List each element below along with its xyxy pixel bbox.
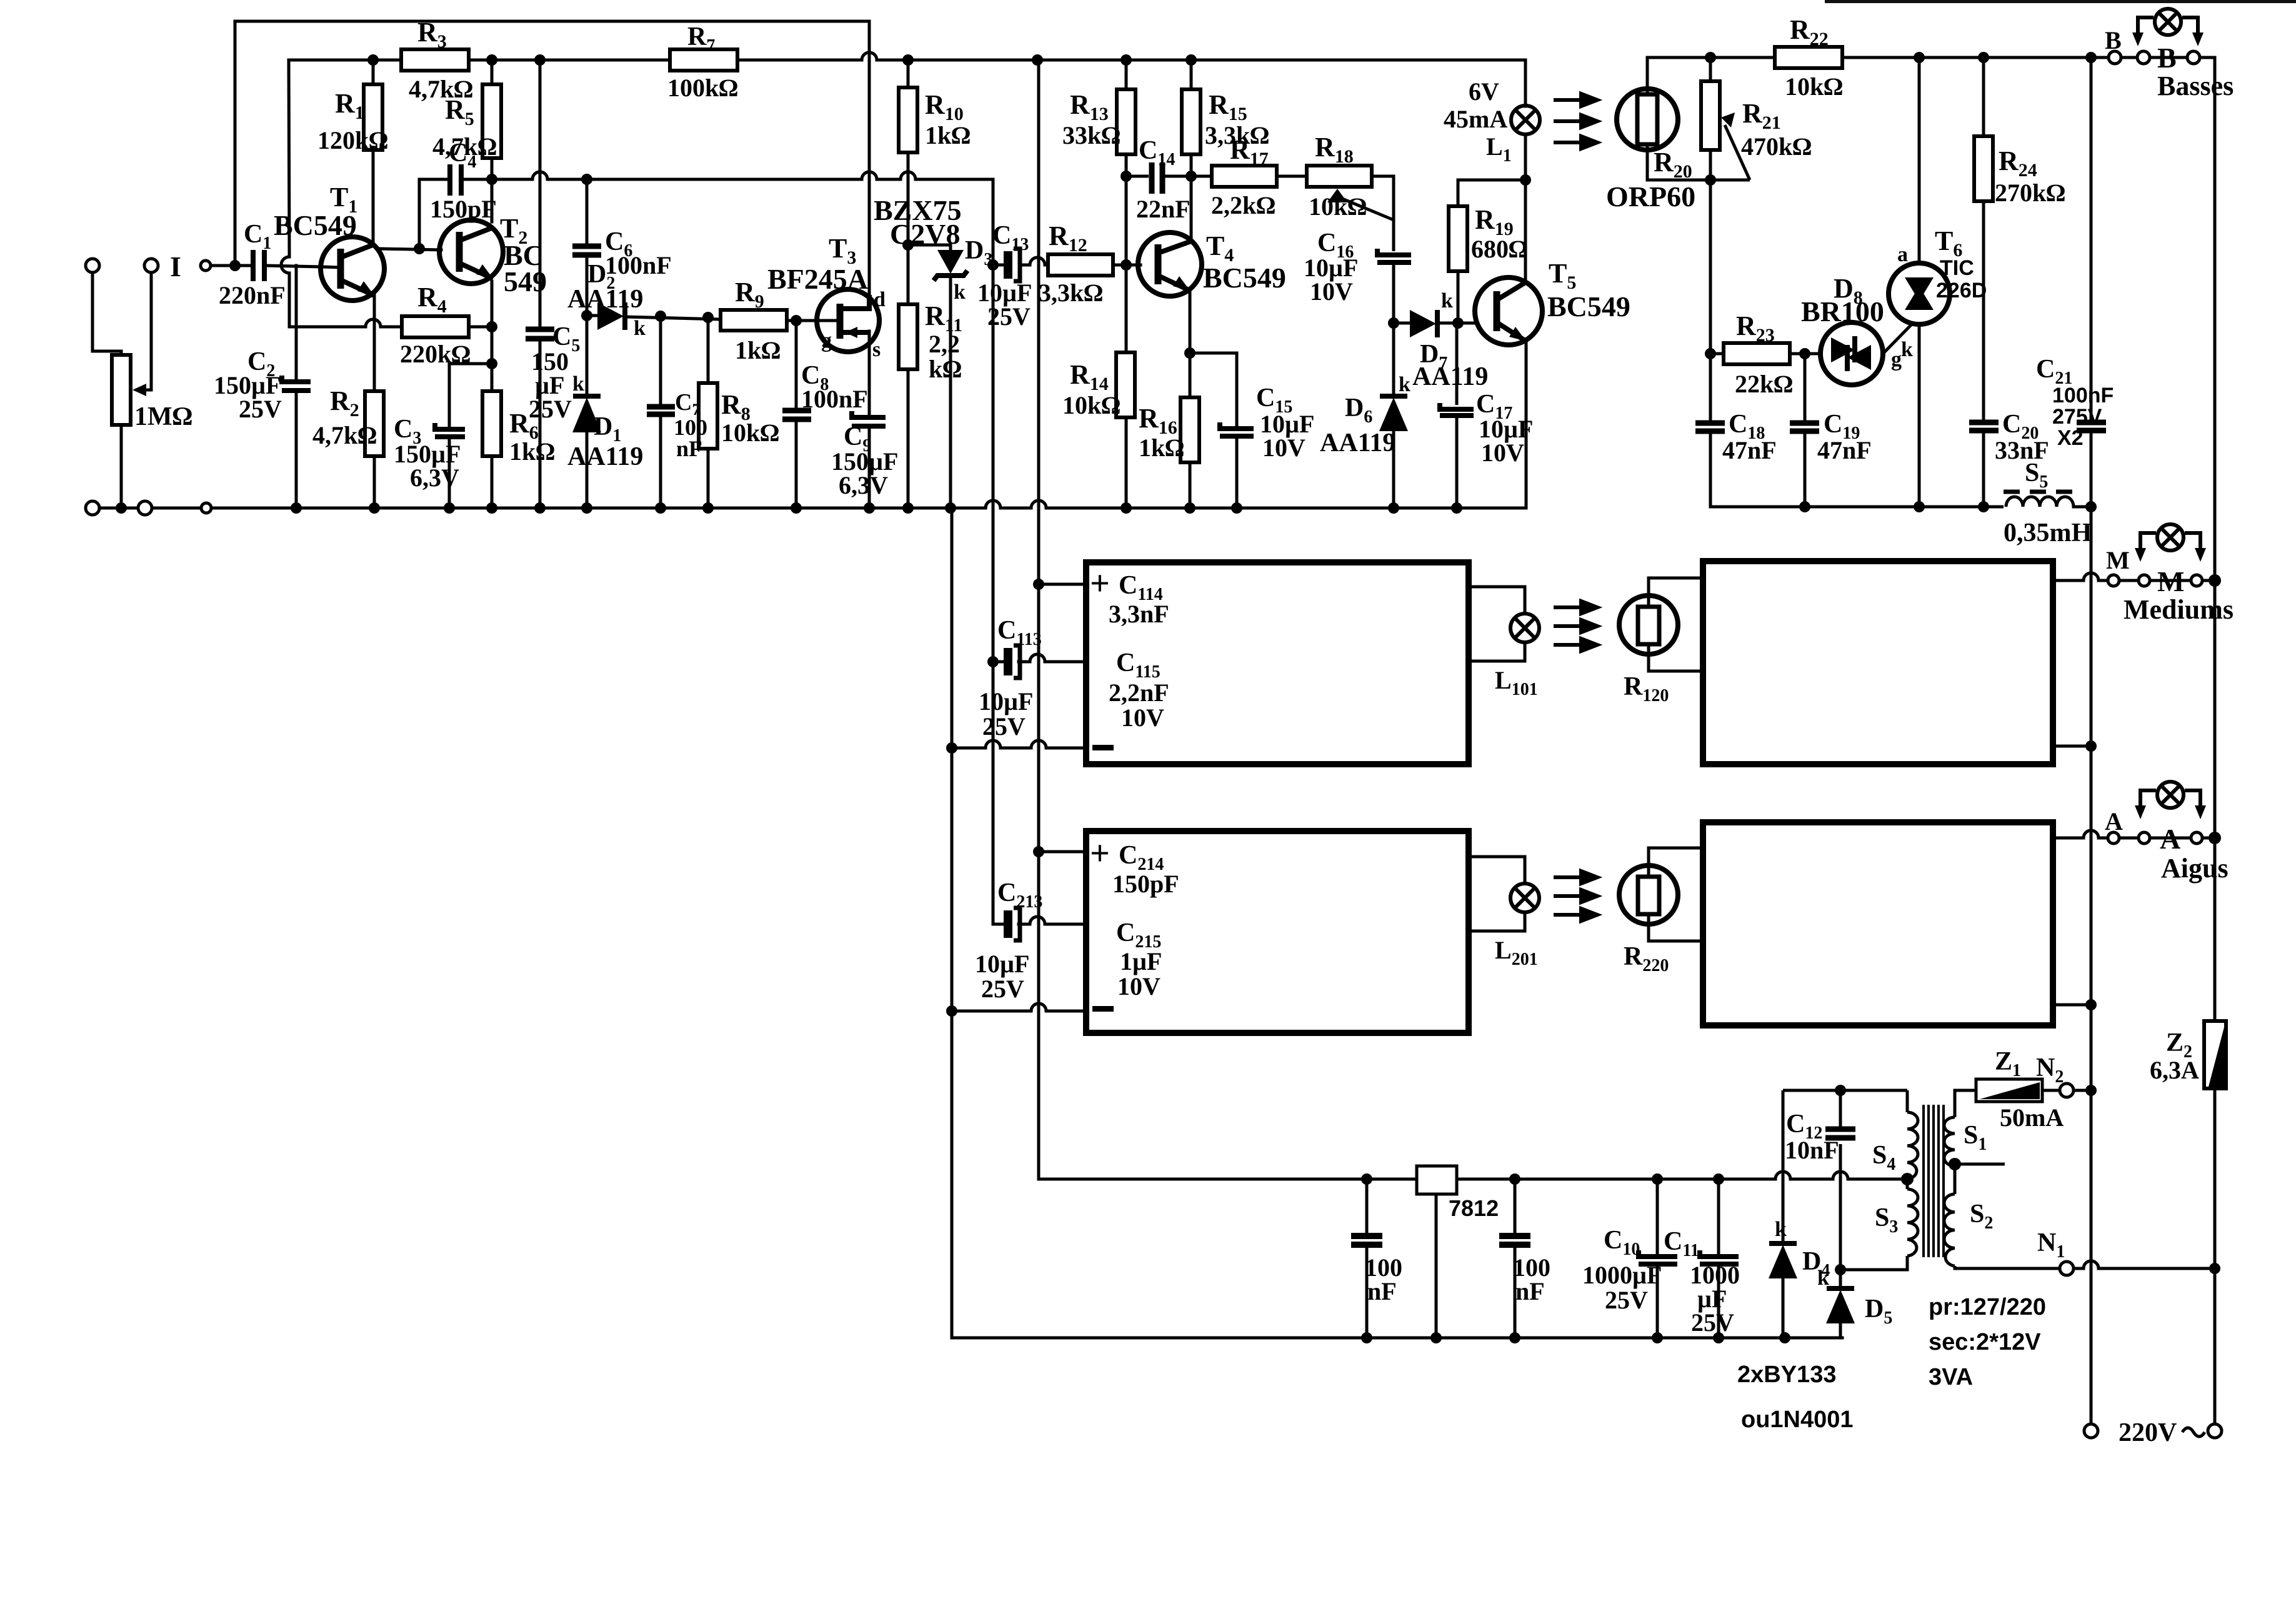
wire: C16 bottom to D6/D7 node	[1392, 264, 1395, 323]
terminal N2	[2060, 1083, 2074, 1097]
220V mains terminals	[2084, 1424, 2098, 1438]
svg-text:nF: nF	[1515, 1277, 1545, 1305]
svg-text:25V: 25V	[239, 395, 282, 423]
capacitor C213 10uF 25V (electrolytic, horizontal)	[1008, 908, 1020, 940]
capacitor C16 10uF 10V (electrolytic)	[1377, 249, 1411, 262]
svg-text:nF: nF	[676, 436, 702, 461]
svg-text:+: +	[1090, 834, 1110, 873]
wire: right block A lower stub	[2055, 1004, 2091, 1007]
wire: L1 lamp to T5 collector	[1524, 134, 1527, 282]
svg-text:1kΩ: 1kΩ	[509, 437, 555, 466]
wire: R24/C20 column	[1982, 57, 1985, 136]
wire: +rail y=96 from R7 to L1 corner, hop over x=1391	[736, 52, 1525, 106]
resistor R3 4,7k (in + rail)	[401, 49, 469, 71]
wire: C6/D1 column	[586, 179, 589, 245]
wire: right block M lower stub	[2055, 745, 2091, 748]
wire: R18 to C16 column corner	[1372, 176, 1394, 251]
svg-text:k: k	[572, 372, 584, 396]
wire: C3 branch from emitter column	[449, 364, 492, 427]
wire: PSU top link D4 column to transformer	[1783, 1090, 2215, 1270]
capacitor C9 150uF 6,3V (electrolytic)	[852, 411, 886, 426]
fuse Z1 50mA	[1976, 1079, 2042, 1102]
wire: T1 collector column	[372, 60, 375, 84]
resistor R10 1k	[899, 87, 917, 152]
wire: C214 + row into block 2	[1039, 850, 1084, 854]
wire: R21 column	[1709, 57, 1712, 81]
svg-text:270kΩ: 270kΩ	[1995, 179, 2065, 207]
svg-text:6V: 6V	[1469, 77, 1499, 106]
svg-text:150pF: 150pF	[1112, 870, 1179, 898]
svg-text:AA119: AA119	[567, 285, 643, 314]
capacitor C10 1000uF 25V (electrolytic)	[1656, 1179, 1659, 1338]
svg-text:10kΩ: 10kΩ	[1785, 72, 1843, 101]
svg-text:A: A	[2160, 823, 2180, 855]
svg-text:100nF: 100nF	[801, 385, 868, 413]
wire: R15 column from +rail to C14 node to T4 collector	[1190, 60, 1193, 89]
wire: A row from block to terminals with hop over x=3346	[2055, 830, 2215, 838]
svg-text:4,7kΩ: 4,7kΩ	[312, 421, 377, 449]
wire: C19 column	[1804, 354, 1807, 421]
wire: C13 row y=424 zener node to R12 to T4 base, hop over x=1662	[993, 257, 1141, 265]
wire: T6 cathode column	[1918, 324, 1921, 507]
capacitor C13 10uF 25V (electrolytic, horizontal)	[1008, 249, 1020, 281]
wire: R23 row y=566	[1710, 352, 1724, 356]
capacitor C8 100nF	[782, 411, 811, 419]
svg-text:BC549: BC549	[1547, 291, 1630, 322]
wire: C17 column	[1455, 323, 1459, 405]
lamp L1 6V 45mA	[1511, 106, 1540, 134]
svg-text:33nF: 33nF	[1995, 436, 2049, 464]
svg-text:6,3A: 6,3A	[2150, 1056, 2199, 1084]
wire: signal column x=1589 down to C113 and C213 rows	[992, 265, 995, 924]
wire: T2 emitter column through R6	[491, 281, 494, 391]
svg-text:25V: 25V	[987, 302, 1031, 331]
svg-text:25V: 25V	[529, 395, 572, 423]
resistor R9 1k	[721, 310, 787, 331]
capacitor C4 150pF	[450, 164, 461, 196]
resistor R6 1k	[482, 391, 501, 456]
wire: R4 right end to T2 emitter column	[469, 326, 492, 329]
junction dots: left preamp section	[116, 54, 1044, 1017]
filter block 2 (Aigus high-pass)	[1086, 831, 1469, 1033]
terminal N1	[2060, 1262, 2074, 1275]
svg-text:0,35mH: 0,35mH	[2004, 519, 2092, 547]
potentiometer R21 470k	[1701, 81, 1720, 150]
wire: diac to triac gate diagonal	[1883, 322, 1914, 354]
ground rail hops over x=1589 and x=1662	[986, 501, 1526, 508]
svg-text:k: k	[1901, 338, 1913, 361]
svg-text:k: k	[954, 281, 966, 304]
wire: block1 minus row y=1197 from ground spine, hops over x=1589 and x=1662	[952, 740, 1084, 748]
svg-text:d: d	[874, 288, 886, 311]
svg-text:Aigus: Aigus	[2161, 853, 2229, 884]
power block M (right)	[1703, 561, 2053, 764]
lamp symbol above B terminals	[2138, 9, 2198, 37]
svg-text:1µF: 1µF	[1120, 947, 1162, 975]
M terminal circles	[2108, 575, 2202, 586]
capacitor C19 47nF	[1790, 423, 1819, 431]
svg-text:220V: 220V	[2119, 1418, 2177, 1447]
svg-text:10V: 10V	[1310, 277, 1353, 306]
svg-text:47nF: 47nF	[1722, 436, 1777, 464]
diode D4 BY133 (cathode up)	[1782, 1090, 1785, 1338]
wire: +rail y=96 left segment with corner down at x=462	[289, 59, 401, 62]
svg-text:3,3kΩ: 3,3kΩ	[1039, 279, 1103, 307]
svg-text:nF: nF	[1367, 1277, 1397, 1305]
capacitor C2 150uF 25V (electrolytic)	[282, 376, 311, 391]
diode D2 AA119 (pointing right)	[597, 302, 624, 330]
wire: T3 source to C9 to ground	[868, 331, 871, 415]
LDR R220	[1619, 865, 1678, 924]
resistor R7 100k (in + rail)	[670, 49, 737, 71]
svg-text:BF245A: BF245A	[767, 263, 868, 295]
wire: R13 column from +rail through C14 node to T4 base node and R14	[1126, 60, 1525, 508]
capacitor C12 10nF	[1839, 1090, 1842, 1127]
diac D8 BR100	[1820, 322, 1883, 385]
svg-text:10kΩ: 10kΩ	[1309, 192, 1367, 221]
svg-text:22nF: 22nF	[1136, 195, 1190, 223]
svg-text:+: +	[1090, 564, 1110, 603]
wire: M row from block to terminals with hop over x=3346	[2055, 573, 2215, 580]
svg-text:k: k	[1399, 373, 1410, 396]
resistor R13 33k	[1117, 89, 1136, 154]
svg-text:10V: 10V	[1121, 704, 1164, 732]
svg-text:B: B	[2157, 42, 2177, 74]
wire: C7 column	[659, 316, 662, 405]
diode D5 BY133 (cathode up)	[1839, 1144, 1842, 1338]
svg-text:BR100: BR100	[1801, 296, 1884, 327]
svg-text:10V: 10V	[1117, 972, 1160, 1000]
svg-text:2,2kΩ: 2,2kΩ	[1211, 191, 1275, 219]
svg-text:AA119: AA119	[1320, 429, 1395, 457]
scan artifact line at top edge	[1825, 0, 2296, 3]
input jack terminal circles	[86, 259, 211, 515]
resistor R11 2,2k	[899, 304, 917, 369]
wire: R8 column	[707, 317, 710, 383]
wire: C14/R17 row y=282	[1126, 175, 1149, 178]
lamp symbol above A terminals	[2140, 782, 2200, 810]
potentiometer R18 10k	[1307, 166, 1372, 187]
wire: column x=2737 down to R23 and C18, corner to bottom rail	[1709, 180, 1712, 354]
capacitor C18 47nF	[1695, 423, 1725, 431]
svg-text:X2: X2	[2057, 426, 2084, 450]
transistor T2 BC549	[439, 220, 503, 284]
A terminal circles	[2108, 832, 2202, 844]
svg-text:2,2nF: 2,2nF	[1109, 679, 1169, 707]
wire: C5 column from +rail to ground	[539, 60, 542, 327]
B terminal circles	[2109, 51, 2200, 64]
junction dots PSU	[1361, 1085, 1961, 1343]
capacitor C17 10uF 10V (electrolytic)	[1440, 403, 1474, 416]
potentiometer R21 wiper diagonal	[1725, 125, 1750, 180]
lamp L201 with loop from block2	[1470, 857, 1525, 931]
N1 wire to right column with hop over x=3346	[2073, 1261, 2215, 1268]
svg-text:25V: 25V	[1605, 1286, 1648, 1314]
potentiometer wiper arrow	[142, 272, 151, 390]
LDR R120	[1619, 595, 1678, 654]
wire: T1 emitter down through R2 to ground	[373, 296, 376, 391]
secondary centre tap stub	[1955, 1163, 2005, 1166]
resistor R15 3,3k	[1182, 89, 1200, 154]
svg-text:k: k	[1775, 1218, 1787, 1241]
svg-text:275V: 275V	[2052, 405, 2102, 429]
svg-text:k: k	[634, 317, 646, 340]
svg-text:100nF: 100nF	[2052, 384, 2114, 407]
svg-text:3,3nF: 3,3nF	[1109, 600, 1169, 628]
svg-text:220nF: 220nF	[219, 281, 286, 309]
power block A (right)	[1703, 822, 2053, 1025]
wire: block2 minus row y=1618 from ground spine, hop over x=1662	[952, 1004, 1084, 1011]
diode D1 AA119 (cathode up)	[573, 394, 601, 399]
wire: mid rail y=287 from C4 corner to x=1589 corner, hops at C5,x1391,x1453	[419, 172, 993, 265]
svg-text:1000µF: 1000µF	[1582, 1261, 1662, 1289]
svg-text:25V: 25V	[982, 712, 1026, 740]
svg-text:ORP60: ORP60	[1606, 181, 1695, 212]
svg-text:10kΩ: 10kΩ	[721, 419, 779, 447]
svg-text:BC549: BC549	[1203, 262, 1286, 294]
wire: C8 column	[795, 321, 798, 408]
svg-text:BC549: BC549	[274, 209, 357, 241]
capacitor C15 10uF 10V (electrolytic)	[1220, 422, 1254, 436]
svg-text:1kΩ: 1kΩ	[925, 121, 971, 149]
svg-text:220kΩ: 220kΩ	[400, 340, 471, 368]
svg-text:10kΩ: 10kΩ	[1062, 391, 1121, 419]
wire: R19 top to T5 collector node	[1458, 180, 1525, 206]
minus terminal of block2	[1092, 1006, 1114, 1012]
svg-text:A: A	[2105, 807, 2123, 835]
resistor R12 3,3k	[1048, 254, 1113, 276]
lamp symbol above M terminals	[2140, 524, 2200, 553]
svg-text:7812: 7812	[1449, 1195, 1499, 1221]
wire: T4 emitter to R16 and C15	[1189, 287, 1192, 397]
resistor R8 10k	[699, 383, 717, 449]
svg-text:M: M	[2106, 546, 2130, 574]
wire: signal row D2 to R9	[587, 314, 597, 317]
wires: input jack to potentiometer	[92, 272, 237, 508]
svg-text:g: g	[1891, 348, 1902, 371]
svg-text:g: g	[821, 329, 832, 352]
wires: mains-side rail y=92 with R22 inline, B row terminals	[1647, 57, 2215, 1424]
light arrows from L1 to ORP60	[1554, 94, 1597, 149]
resistor R22 10k (in rail)	[1775, 47, 1842, 68]
svg-text:470kΩ: 470kΩ	[1741, 132, 1812, 161]
svg-text:2xBY133: 2xBY133	[1737, 1362, 1836, 1388]
capacitor C1 220nF	[253, 250, 264, 281]
zener diode D3 BZX75C2V8 (cathode down)	[937, 250, 964, 274]
wire: D7 row to T5 base	[1394, 322, 1410, 325]
svg-text:100kΩ: 100kΩ	[667, 74, 738, 102]
transformer primary winding line	[1906, 1090, 1909, 1112]
wire: C113 row y=1059 into block 1, hop over +12V column	[993, 654, 1084, 662]
svg-text:10µF: 10µF	[975, 950, 1029, 978]
svg-text:50mA: 50mA	[2000, 1103, 2064, 1132]
wire: T1-T2 coupling y=398	[380, 249, 441, 250]
wire: D3 cathode down to ground column, PSU ground spine, bottom rail	[949, 277, 952, 508]
svg-text:10nF: 10nF	[1785, 1136, 1839, 1164]
svg-text:kΩ: kΩ	[929, 355, 962, 383]
svg-text:Mediums: Mediums	[2124, 594, 2234, 625]
resistor R19 680 ohm	[1449, 206, 1467, 271]
svg-text:k: k	[1441, 289, 1453, 312]
svg-text:120kΩ: 120kΩ	[317, 126, 388, 154]
transformer secondary winding line	[1955, 1090, 1976, 1117]
svg-text:10µF: 10µF	[979, 687, 1033, 715]
wire: C213 row y=1479 into block 2, hop over +12V column	[993, 917, 1084, 924]
wire: C114 + row into block 1	[1039, 583, 1084, 586]
wire: R10/R11 column x=1453	[907, 60, 910, 87]
transistor T1 BC549	[321, 237, 384, 301]
LDR R20 ORP60	[1617, 89, 1678, 150]
filter block 1 (Mediums band-pass)	[1086, 562, 1469, 764]
wire: input to C1 and T1 base	[210, 264, 251, 267]
capacitor C113 10uF 25V (electrolytic, horizontal)	[1008, 645, 1020, 678]
wire: ground rail y=813 left section	[211, 507, 986, 510]
wire: R9 to T3 gate with C8 tap	[787, 319, 818, 322]
resistor R24 270k	[1974, 136, 1993, 201]
light arrows L101 to R120	[1554, 601, 1597, 651]
wire: C2 column	[295, 266, 298, 380]
junction dots: mains side	[1705, 52, 2221, 1274]
capacitor C7 100nF	[647, 407, 675, 414]
transformer core	[1924, 1105, 1944, 1257]
resistor R14 10k	[1116, 352, 1135, 417]
diode D6 AA119 (cathode up)	[1380, 394, 1407, 399]
wire: R5/T2 collector column	[491, 60, 494, 84]
resistor R2 4,7k	[365, 391, 384, 456]
svg-text:22kΩ: 22kΩ	[1735, 370, 1793, 398]
svg-text:Basses: Basses	[2157, 71, 2234, 101]
wire: R19 bottom to base node	[1457, 271, 1460, 323]
wire: +12V column x=1662 from +rail, corner to 7812 rail, to transformer centre tap; hops over D4,D5 columns	[1039, 60, 1905, 1179]
svg-text:1kΩ: 1kΩ	[1139, 434, 1184, 462]
capacitor 100nF (left of 7812)	[1365, 1179, 1369, 1338]
Z1 right lead to N2	[2042, 1089, 2060, 1092]
resistor R16 1k	[1180, 397, 1199, 462]
wire: right outer column x=3544 M row to Z2	[2214, 580, 2217, 838]
svg-text:I: I	[170, 251, 181, 282]
capacitor C6 100nF	[572, 246, 601, 255]
svg-text:47nF: 47nF	[1817, 436, 1872, 464]
svg-text:C2V8: C2V8	[890, 218, 960, 250]
light arrows L201 to R220	[1554, 871, 1597, 921]
capacitor C21 100nF 275V X2	[2077, 422, 2106, 431]
wire: D6 column below node	[1392, 323, 1395, 394]
resistor R4 220k	[402, 316, 469, 337]
resistor R23 22k	[1724, 343, 1790, 364]
wire: R4 feed column x=463 with hop over base wire, corner to R4	[281, 60, 402, 327]
triac T6 TIC226D	[1889, 263, 1950, 324]
capacitor C3 150uF 6,3V (electrolytic)	[435, 423, 465, 437]
wire: T5 emitter column joining ground rail end	[1525, 341, 1528, 508]
svg-text:sec:2*12V: sec:2*12V	[1929, 1329, 2041, 1355]
svg-text:549: 549	[504, 266, 547, 297]
svg-text:1MΩ: 1MΩ	[134, 402, 192, 431]
svg-text:1kΩ: 1kΩ	[735, 336, 781, 364]
svg-text:3VA: 3VA	[1929, 1364, 1973, 1390]
junction dots: T4/T5 section	[1121, 54, 1531, 514]
wire: T6 anode column	[1918, 57, 1921, 263]
svg-text:25V: 25V	[1691, 1308, 1734, 1337]
resistor R1 120k	[364, 84, 382, 150]
potentiometer 1M ohm	[112, 355, 131, 425]
svg-text:6,3V: 6,3V	[839, 471, 888, 499]
resistor R5 4,7k	[482, 84, 501, 158]
wire: D3 branch	[908, 245, 951, 249]
transistor T3 BF245A (JFET)	[817, 289, 879, 352]
svg-text:M: M	[2157, 565, 2184, 597]
svg-text:25V: 25V	[981, 975, 1024, 1003]
svg-text:33kΩ: 33kΩ	[1062, 121, 1121, 149]
svg-text:2,2: 2,2	[929, 330, 960, 358]
minus terminal of block1	[1092, 745, 1114, 750]
svg-text:AA119: AA119	[1412, 362, 1488, 391]
svg-text:10V: 10V	[1481, 439, 1524, 467]
svg-text:AA119: AA119	[567, 442, 643, 471]
transistor T4 BC549	[1138, 232, 1202, 296]
svg-text:226D: 226D	[1936, 279, 1987, 302]
resistor R17 2,2k	[1212, 166, 1277, 187]
capacitor C14 22nF	[1152, 162, 1162, 194]
regulator 7812	[1435, 1193, 1438, 1338]
transistor T5 BC549	[1475, 277, 1542, 345]
wire: +rail y=96 between R3 and R7	[469, 59, 670, 62]
svg-text:s: s	[872, 338, 881, 361]
svg-text:TIC: TIC	[1940, 256, 1974, 280]
capacitor C20 33nF	[1969, 422, 1999, 431]
svg-text:45mA: 45mA	[1444, 105, 1507, 133]
svg-text:k: k	[1817, 1267, 1829, 1290]
capacitor C11 1000uF 25V (electrolytic)	[1717, 1179, 1720, 1338]
svg-text:6,3V: 6,3V	[410, 464, 459, 492]
capacitor 100nF (right of 7812)	[1514, 1179, 1517, 1338]
svg-text:10V: 10V	[1262, 434, 1305, 462]
svg-text:680Ω: 680Ω	[1471, 235, 1528, 263]
svg-text:ou1N4001: ou1N4001	[1741, 1407, 1854, 1433]
wire: C21 column x=3346 from B rail to N2, through terminal row hops	[2090, 57, 2093, 420]
wire: top rail y=34 from input column to T3 drain column	[235, 21, 869, 295]
fuse Z2 6,3A	[2204, 1021, 2226, 1088]
lamp L101 with loop from block1	[1470, 587, 1525, 661]
diode D7 AA119 (pointing right)	[1410, 310, 1436, 337]
inductor S5 0,35mH in bottom rail	[2006, 497, 2091, 507]
svg-text:B: B	[2105, 26, 2122, 54]
wire: ORP60 bottom to R21 bottom node	[1647, 144, 1750, 180]
svg-text:pr:127/220: pr:127/220	[1929, 1294, 2046, 1320]
svg-text:a: a	[1897, 243, 1908, 266]
capacitor C5 150uF 25V	[526, 329, 554, 339]
